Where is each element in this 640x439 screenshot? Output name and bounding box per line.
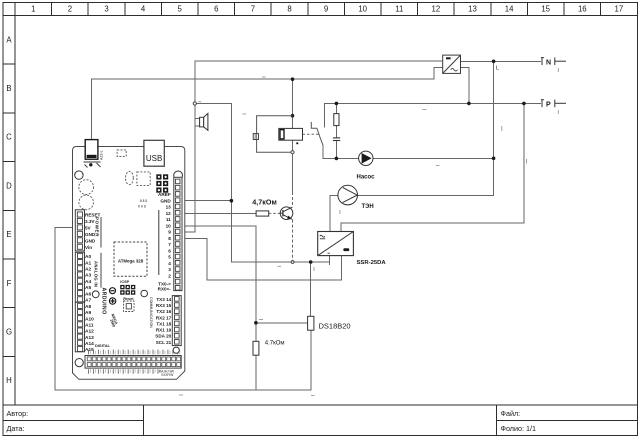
svg-text:5: 5 [168,255,171,260]
svg-text:10: 10 [358,5,367,14]
svg-text:8: 8 [168,236,171,241]
svg-text:TX2 16: TX2 16 [156,309,171,314]
svg-text:TX1 18: TX1 18 [156,321,171,326]
svg-text:12: 12 [166,211,172,216]
svg-text:6: 6 [168,249,171,254]
svg-text:8: 8 [287,5,291,14]
svg-text:Автор:: Автор: [7,409,29,418]
svg-text:ATMega 328: ATMega 328 [118,259,144,264]
svg-text:H: H [6,376,12,385]
svg-text:SCL 21: SCL 21 [156,340,172,345]
svg-text:10: 10 [166,223,172,228]
svg-text:A8: A8 [85,304,91,310]
svg-text:Файл:: Файл: [501,409,521,418]
svg-text:9: 9 [324,5,328,14]
svg-text:2: 2 [168,274,171,279]
svg-text:A13: A13 [85,335,94,341]
svg-text:4,7кОм: 4,7кОм [252,198,276,207]
svg-text:7: 7 [168,242,171,247]
svg-text:ANALOG IN: ANALOG IN [94,261,99,287]
svg-text:COMMUNICATION: COMMUNICATION [149,297,153,328]
svg-text:7: 7 [251,5,255,14]
svg-text:13: 13 [468,5,477,14]
svg-text:ТЭН: ТЭН [362,204,374,210]
svg-text:DIGITAL: DIGITAL [95,344,111,348]
svg-text:1: 1 [31,5,35,14]
svg-text:17: 17 [615,5,624,14]
svg-text:A0: A0 [85,254,91,260]
svg-text:Дата:: Дата: [7,424,25,433]
svg-text:3: 3 [168,267,171,272]
svg-text:A6: A6 [85,291,91,297]
svg-text:RX2 17: RX2 17 [156,315,172,320]
svg-text:4.7кОм: 4.7кОм [265,341,285,347]
svg-text:G: G [6,328,12,337]
svg-text:13: 13 [166,205,172,210]
svg-text:N: N [546,59,551,66]
svg-text:A9: A9 [85,310,91,316]
svg-text:5V: 5V [85,226,92,231]
svg-text:SDA 20: SDA 20 [155,334,171,339]
svg-text:Vin: Vin [85,245,92,250]
svg-text:GND: GND [85,232,96,237]
svg-text:Насос: Насос [357,175,376,181]
svg-text:GND: GND [85,239,96,244]
svg-text:8 8 8: 8 8 8 [140,199,147,203]
svg-text:D: D [6,181,12,190]
svg-text:SSR-25DA: SSR-25DA [357,260,387,266]
svg-text:GND: GND [160,198,171,203]
svg-text:A5: A5 [85,285,91,291]
svg-text:A4: A4 [85,279,91,285]
svg-text:TX3 14: TX3 14 [156,297,171,302]
svg-text:11: 11 [395,5,403,14]
svg-text:4: 4 [141,5,146,14]
svg-text:ICSP: ICSP [120,280,129,284]
svg-text:9: 9 [168,230,171,235]
svg-text:L: L [496,66,499,72]
svg-text:A7: A7 [85,298,91,304]
svg-text:P: P [546,101,551,108]
svg-text:F: F [7,279,12,288]
svg-text:A10: A10 [85,316,94,322]
svg-text:C: C [6,133,12,142]
svg-text:15: 15 [541,5,550,14]
svg-text:6: 6 [214,5,218,14]
svg-text:3.3V: 3.3V [85,219,95,224]
svg-text:5: 5 [178,5,183,14]
svg-text:ARDUINO: ARDUINO [101,288,107,315]
svg-text:K K 8: K K 8 [138,205,146,209]
svg-text:VXXFIW: VXXFIW [161,373,173,377]
svg-text:A: A [6,35,12,44]
svg-text:11: 11 [166,217,171,222]
svg-text:DS18B20: DS18B20 [319,321,351,330]
svg-text:A15: A15 [85,347,94,353]
svg-text:2: 2 [68,5,72,14]
svg-text:B: B [6,84,11,93]
svg-text:Reset: Reset [123,297,134,301]
svg-text:POWER: POWER [95,217,100,237]
svg-text:4: 4 [168,261,171,266]
svg-text:16: 16 [578,5,587,14]
svg-text:RX3 15: RX3 15 [156,303,172,308]
svg-text:E: E [6,230,11,239]
svg-text:A2: A2 [85,267,91,273]
svg-text:12: 12 [432,5,441,14]
svg-text:A1: A1 [85,260,91,266]
svg-text:A12: A12 [85,329,94,335]
svg-text:USB: USB [146,154,162,163]
svg-text:A14: A14 [85,341,94,347]
svg-text:3: 3 [104,5,108,14]
svg-text:14: 14 [505,5,514,14]
svg-text:A11: A11 [85,323,94,329]
svg-text:TX0->: TX0-> [158,281,171,286]
svg-text:RX1 19: RX1 19 [156,328,172,333]
svg-text:A3: A3 [85,273,91,279]
svg-text:RX0<-: RX0<- [158,287,172,292]
svg-text:Фолио: 1/1: Фолио: 1/1 [501,424,537,433]
svg-text:A23-L: A23-L [100,150,104,160]
svg-text:AREF: AREF [158,192,171,197]
